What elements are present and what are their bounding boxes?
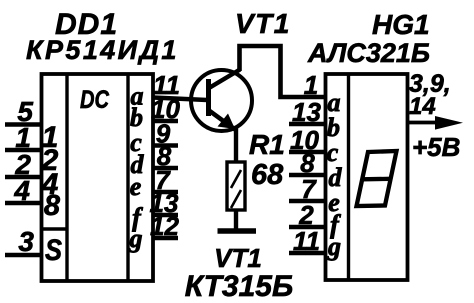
DD1 input pin 1 wire	[5, 148, 42, 152]
DD1 output pin 13 stub	[153, 213, 178, 217]
svg-text:4: 4	[13, 175, 30, 206]
seven segment digit glyph	[357, 151, 397, 206]
svg-text:g: g	[327, 232, 341, 261]
svg-text:68: 68	[251, 159, 284, 191]
DD1 input pin 5 wire	[5, 122, 42, 126]
HG1 pin 2 stub	[289, 225, 326, 229]
wire R1 to ground	[234, 210, 238, 229]
DD1 output pin 8 stub	[153, 166, 178, 170]
svg-text:13: 13	[292, 97, 321, 127]
HG1 pin 10 stub	[289, 150, 326, 154]
svg-text:+5В: +5В	[412, 132, 460, 162]
svg-text:КТ315Б: КТ315Б	[185, 270, 293, 303]
HG1 pin 8 stub	[289, 173, 326, 177]
DD1 output pin 7 stub	[153, 190, 178, 194]
transistor VT1	[191, 70, 252, 132]
ground	[218, 228, 257, 234]
DD1 input pin 4 wire	[5, 201, 42, 205]
svg-text:R1: R1	[249, 129, 285, 160]
svg-text:КР514ИД1: КР514ИД1	[26, 35, 179, 65]
HG1 pin 13 stub	[289, 122, 326, 126]
resistor R1	[227, 162, 245, 210]
svg-text:8: 8	[44, 190, 61, 222]
IC DD1 body	[42, 74, 154, 281]
svg-text:14: 14	[409, 93, 436, 120]
svg-text:HG1: HG1	[372, 9, 430, 40]
+5V arrow head	[435, 116, 463, 130]
svg-text:11: 11	[293, 226, 320, 256]
svg-text:АЛС321Б: АЛС321Б	[307, 38, 430, 68]
svg-text:3: 3	[18, 226, 34, 257]
svg-text:1: 1	[304, 70, 318, 100]
DD1 input pin 2 wire	[5, 175, 42, 179]
display HG1 body	[326, 74, 408, 280]
svg-text:VT1: VT1	[235, 8, 291, 39]
HG1 pin 11 stub	[289, 251, 326, 255]
wire VT1 collector to HG1 pin 1	[240, 46, 326, 97]
svg-text:e: e	[130, 172, 142, 201]
DD1 output pin 10 stub	[153, 119, 178, 123]
wire HG1 common anode to +5V	[408, 121, 443, 125]
wire VT1 emitter to R1	[234, 128, 238, 162]
svg-text:DC: DC	[80, 86, 110, 114]
svg-text:VT1: VT1	[214, 243, 262, 273]
wire DD1 pin 11 to VT1 base	[153, 98, 207, 101]
HG1 pin 7 stub	[289, 199, 326, 203]
svg-text:12: 12	[150, 211, 179, 241]
DD1 output pin 9 stub	[153, 143, 178, 147]
DD1 output pin 12 stub	[153, 236, 178, 240]
svg-text:S: S	[45, 234, 62, 267]
DD1 input pin 3 wire	[5, 253, 42, 257]
svg-text:g: g	[129, 224, 143, 253]
